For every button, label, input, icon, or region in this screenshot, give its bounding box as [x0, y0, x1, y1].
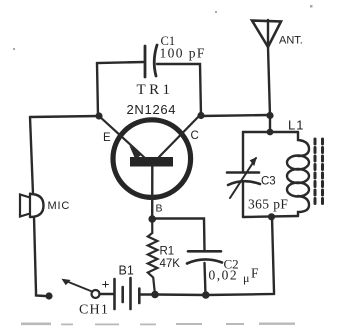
capacitor C1	[145, 45, 157, 77]
bottom cropped text remnants	[21, 323, 295, 326]
resistor R1 47K	[148, 219, 158, 295]
wire tank top edge	[243, 131, 298, 133]
capacitor C3 variable	[227, 158, 260, 198]
capacitor C2	[187, 251, 222, 263]
wire MIC top lead	[30, 117, 33, 194]
node base B	[148, 215, 156, 223]
transistor TR1	[99, 114, 201, 219]
svg-text:+: +	[102, 278, 110, 293]
wire tank bottom edge	[243, 216, 298, 217]
wire base to C2	[152, 219, 204, 251]
svg-text:365 pF: 365 pF	[248, 197, 288, 212]
wire C2 bottom lead	[205, 263, 206, 295]
svg-text:R1: R1	[160, 246, 175, 258]
svg-text:2N1264: 2N1264	[127, 102, 177, 117]
svg-text:C3: C3	[261, 176, 276, 188]
wire switch to battery	[100, 293, 115, 295]
svg-text:MIC: MIC	[48, 200, 71, 212]
svg-text:B: B	[156, 203, 163, 215]
svg-text:TR1: TR1	[137, 82, 174, 98]
wire left branch horizontal	[30, 116, 99, 117]
node tank bottom	[268, 213, 275, 220]
node antenna junction	[266, 112, 273, 119]
svg-text:B1: B1	[119, 264, 134, 278]
svg-text:E: E	[103, 132, 111, 144]
wire tank left lower (C3 bottom lead)	[242, 183, 244, 217]
wire tank left upper (C3 top lead)	[242, 132, 244, 172]
microphone MIC	[20, 194, 44, 218]
svg-text:0,02 μF: 0,02 μF	[209, 266, 260, 286]
wire MIC bottom lead	[34, 217, 45, 296]
wire bottom rail C2 to R1	[155, 293, 206, 296]
svg-text:L1: L1	[288, 118, 304, 133]
inductor L1	[287, 132, 309, 216]
node C junction	[197, 112, 204, 119]
wire C1 right lead	[157, 64, 201, 116]
wire battery to R1 node	[140, 293, 155, 295]
svg-text:100 pF: 100 pF	[160, 46, 206, 61]
L1 core dashed lines	[315, 139, 323, 207]
wire antenna node to tank top	[269, 116, 271, 132]
wire C1 left lead	[97, 62, 144, 116]
battery B1	[115, 278, 140, 309]
node R1 bottom	[151, 291, 159, 299]
wire antenna down lead	[268, 47, 270, 116]
svg-text:ANT.: ANT.	[279, 35, 303, 47]
svg-text:47K: 47K	[160, 258, 181, 270]
wire node1 to antenna node	[201, 115, 270, 116]
svg-text:C: C	[191, 130, 199, 142]
switch CH1	[62, 279, 100, 298]
node E junction	[95, 112, 102, 119]
svg-text:CH1: CH1	[79, 303, 109, 318]
node C2 bottom	[202, 291, 210, 299]
antenna ANT	[252, 20, 281, 47]
wire right vertical down	[206, 217, 274, 295]
scan specks	[13, 5, 313, 50]
node switch contact	[45, 292, 52, 299]
node tank top	[267, 129, 274, 136]
